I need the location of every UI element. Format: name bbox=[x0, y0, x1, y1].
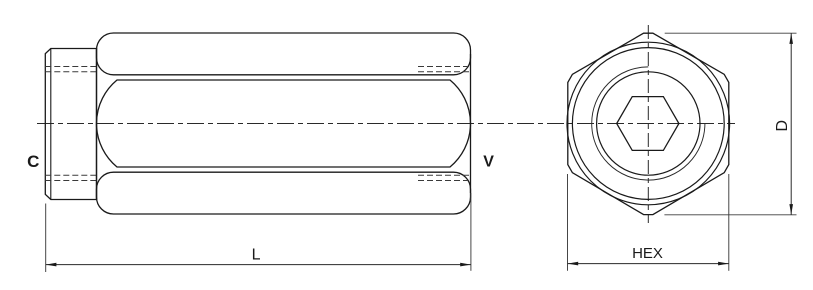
hex socket bbox=[617, 97, 679, 151]
port C thread hidden line lower inner bbox=[45, 174, 96, 176]
svg-text:L: L bbox=[252, 247, 261, 264]
end view vertical centerline bbox=[647, 25, 649, 223]
dimension D arrowhead top bbox=[789, 33, 793, 44]
port V thread hidden line lower inner bbox=[418, 174, 471, 176]
hex body middle facet band bbox=[96, 80, 470, 167]
dimension HEX extension line right bbox=[728, 174, 730, 271]
dimension D extension line bottom bbox=[664, 214, 796, 216]
dimension HEX arrowhead right bbox=[718, 262, 729, 266]
boss chamfer line bbox=[50, 49, 52, 200]
svg-text:D: D bbox=[774, 120, 791, 132]
port V thread major arc bbox=[592, 67, 705, 180]
hex nut outline (truncated hexagon) bbox=[568, 33, 729, 214]
dimension L arrowhead right bbox=[460, 263, 471, 267]
boss right edge / hex left apex line bbox=[96, 49, 98, 200]
svg-text:V: V bbox=[483, 154, 494, 171]
dimension HEX arrowhead left bbox=[568, 262, 579, 266]
dimension L arrowhead left bbox=[46, 263, 57, 267]
hex body top facet band bbox=[97, 33, 471, 75]
face circle bbox=[572, 48, 724, 200]
port V thread hidden line upper inner bbox=[418, 71, 471, 73]
dimension D extension line top bbox=[665, 32, 797, 34]
svg-text:HEX: HEX bbox=[632, 245, 663, 262]
port C thread hidden line lower outer bbox=[45, 180, 96, 182]
dimension D arrowhead bottom bbox=[789, 204, 793, 215]
port V thread hidden line upper outer bbox=[418, 66, 471, 68]
dimension D line bbox=[790, 33, 792, 215]
hex body bottom facet band bbox=[97, 172, 471, 214]
svg-text:C: C bbox=[27, 152, 39, 171]
dimension L extension line right bbox=[470, 193, 472, 271]
chamfer circle bbox=[567, 42, 730, 205]
port C thread hidden line upper outer bbox=[45, 66, 96, 68]
dimension L line bbox=[46, 264, 471, 266]
port V thread minor circle bbox=[597, 72, 700, 175]
port V face edge line bbox=[470, 54, 472, 193]
dimension HEX extension line left bbox=[567, 174, 569, 271]
dimension HEX line bbox=[568, 263, 729, 265]
port V thread hidden line lower outer bbox=[418, 180, 471, 182]
dimension L extension line left bbox=[45, 204, 47, 273]
port C thread hidden line upper inner bbox=[45, 71, 96, 73]
centerline horizontal axis bbox=[37, 123, 735, 125]
port C boss outline bbox=[45, 49, 96, 200]
